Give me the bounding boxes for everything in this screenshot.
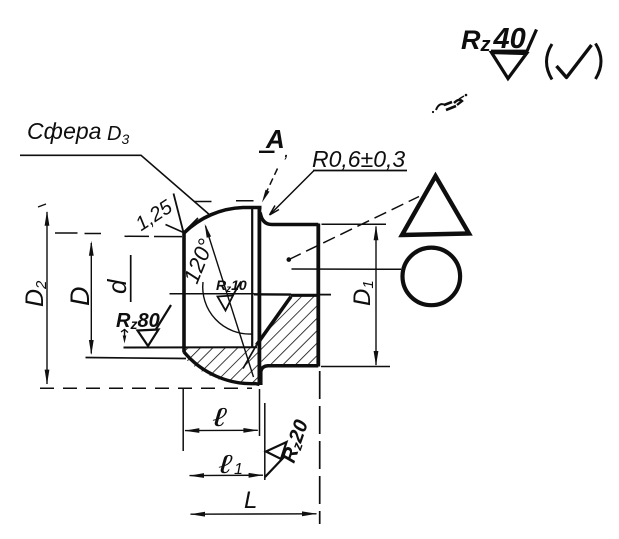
svg-text:D1: D1: [349, 280, 377, 306]
svg-text:L: L: [244, 487, 257, 514]
svg-text:Rz10: Rz10: [216, 277, 247, 295]
svg-text:Rz: Rz: [461, 25, 491, 56]
svg-text:R0,6±0,3: R0,6±0,3: [312, 146, 405, 172]
svg-text:D3: D3: [107, 123, 129, 147]
svg-text:ℓ: ℓ: [218, 450, 233, 479]
svg-text:Rz20: Rz20: [278, 417, 313, 465]
svg-text:d: d: [102, 278, 132, 294]
svg-text:D2: D2: [21, 280, 50, 307]
svg-text:D: D: [65, 287, 95, 307]
svg-text:A: A: [265, 124, 285, 154]
svg-text:1,25: 1,25: [132, 196, 177, 236]
svg-text:,: ,: [284, 141, 289, 162]
svg-text:ℓ: ℓ: [212, 403, 227, 432]
svg-text:1: 1: [234, 461, 243, 478]
svg-text:Сфера: Сфера: [27, 118, 101, 144]
